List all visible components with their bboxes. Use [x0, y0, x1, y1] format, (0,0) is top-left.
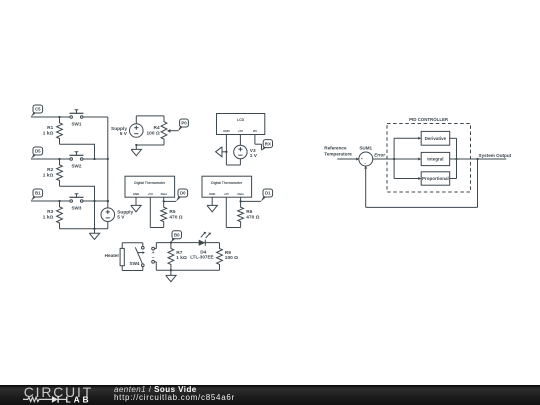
svg-text:Digital Thermometer: Digital Thermometer: [134, 181, 166, 185]
svg-text:Proportional: Proportional: [422, 176, 449, 181]
svg-text:R3: R3: [47, 209, 53, 215]
svg-text:Data: Data: [237, 192, 244, 196]
svg-text:+5V: +5V: [148, 192, 153, 196]
svg-text:1 kΩ: 1 kΩ: [176, 255, 187, 261]
svg-text:GND: GND: [133, 192, 139, 196]
svg-text:SW2: SW2: [71, 164, 81, 169]
svg-text:RX: RX: [265, 141, 271, 146]
svg-text:Reference: Reference: [324, 146, 347, 151]
svg-text:1 kΩ: 1 kΩ: [43, 214, 54, 220]
svg-text:100 Ω: 100 Ω: [147, 130, 160, 136]
svg-text:5 V: 5 V: [120, 131, 128, 137]
svg-text:−: −: [364, 162, 366, 166]
svg-text:C5: C5: [35, 107, 41, 112]
svg-text:+: +: [361, 157, 363, 161]
svg-text:5 V: 5 V: [117, 215, 125, 221]
svg-text:D5: D5: [35, 149, 41, 154]
svg-text:V3: V3: [250, 148, 256, 154]
svg-text:Heater: Heater: [105, 253, 120, 258]
svg-text:R6: R6: [246, 209, 252, 215]
svg-text:GND: GND: [209, 192, 215, 196]
svg-text:P0: P0: [181, 121, 187, 126]
svg-text:100 Ω: 100 Ω: [225, 255, 238, 261]
svg-text:Temperature: Temperature: [324, 151, 352, 156]
svg-text:LAB: LAB: [66, 394, 92, 404]
svg-text:470 Ω: 470 Ω: [169, 215, 182, 221]
svg-text:SW4: SW4: [130, 261, 140, 266]
svg-text:PID CONTROLLER: PID CONTROLLER: [409, 117, 449, 122]
svg-text:GND: GND: [223, 129, 229, 133]
svg-text:B1: B1: [35, 191, 41, 196]
svg-text:470 Ω: 470 Ω: [246, 215, 259, 221]
svg-text:LCD: LCD: [237, 118, 245, 122]
svg-text:R4: R4: [154, 125, 160, 131]
svg-text:SW1: SW1: [71, 122, 81, 127]
svg-text:SUM1: SUM1: [359, 145, 372, 150]
svg-text:1 kΩ: 1 kΩ: [43, 130, 54, 136]
svg-text:Data: Data: [161, 192, 168, 196]
svg-text:+5V: +5V: [238, 129, 243, 133]
svg-text:LTL-307EE: LTL-307EE: [190, 255, 213, 260]
svg-text:Error: Error: [374, 153, 385, 158]
svg-text:B0: B0: [174, 232, 180, 237]
svg-text:SW3: SW3: [71, 206, 81, 211]
svg-text:Supply: Supply: [117, 209, 133, 215]
svg-text:R2: R2: [47, 167, 53, 173]
svg-text:R7: R7: [176, 250, 182, 256]
svg-text:D0: D0: [180, 191, 186, 196]
svg-text:−: −: [152, 255, 155, 260]
svg-text:+5V: +5V: [224, 192, 229, 196]
svg-text:D1: D1: [265, 191, 271, 196]
svg-text:1 kΩ: 1 kΩ: [43, 172, 54, 178]
svg-text:1 V: 1 V: [250, 153, 258, 159]
svg-text:Supply: Supply: [111, 126, 127, 132]
svg-text:Digital Thermometer: Digital Thermometer: [211, 181, 243, 185]
svg-text:Integral: Integral: [427, 157, 443, 162]
svg-text:R9: R9: [225, 250, 231, 256]
svg-text:System Output: System Output: [479, 153, 512, 158]
svg-text:R5: R5: [169, 209, 175, 215]
svg-text:R1: R1: [47, 125, 53, 131]
svg-text:RX: RX: [253, 129, 257, 133]
svg-text:Derivative: Derivative: [425, 136, 447, 141]
